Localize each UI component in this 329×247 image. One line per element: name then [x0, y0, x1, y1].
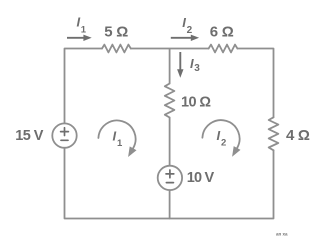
- mesh current loop i2 arrow: [202, 120, 239, 148]
- resistor R1 5-ohm: [102, 45, 131, 53]
- svg-text:2: 2: [187, 25, 193, 36]
- svg-text:1: 1: [81, 25, 87, 36]
- wire: left branch upper and top-left corner to 5-ohm resistor: [65, 49, 103, 124]
- svg-text:10 V: 10 V: [187, 170, 215, 186]
- current I3 branch arrow: [179, 52, 181, 70]
- voltage source V2 plus sign: [166, 170, 174, 178]
- wire: right branch lower and bottom-right segment to node B: [170, 150, 274, 218]
- svg-text:4 Ω: 4 Ω: [286, 127, 310, 144]
- current I1 branch arrow: [67, 37, 84, 39]
- svg-text:10 Ω: 10 Ω: [181, 94, 211, 110]
- wire: middle branch between 10-ohm and 10V source: [169, 118, 171, 166]
- svg-text:1: 1: [117, 138, 123, 149]
- voltage source V1 15V circle: [52, 123, 76, 147]
- voltage source V2 10V circle: [158, 166, 182, 190]
- svg-text:15 V: 15 V: [15, 128, 44, 144]
- resistor R4 4-ohm: [269, 117, 279, 150]
- svg-text:an xa: an xa: [276, 232, 288, 237]
- svg-text:I: I: [113, 129, 117, 144]
- wire: left branch lower and bottom-left segment to node B: [65, 148, 170, 219]
- wire: top middle segment across node A: [131, 48, 209, 50]
- svg-text:5 Ω: 5 Ω: [104, 24, 128, 41]
- voltage source V1 plus sign: [61, 128, 69, 136]
- svg-text:I: I: [217, 128, 221, 143]
- wire: middle branch lower (10V to bottom node B): [169, 190, 171, 218]
- svg-text:2: 2: [221, 138, 226, 149]
- svg-text:6 Ω: 6 Ω: [210, 24, 234, 41]
- resistor R3 10-ohm: [165, 84, 175, 118]
- wire: 6-ohm to top-right corner and right branch upper: [237, 49, 273, 118]
- current I2 branch arrow: [171, 37, 192, 39]
- mesh current loop i1 arrow: [98, 120, 135, 148]
- wire: middle branch upper (node A to 10-ohm): [169, 49, 171, 83]
- resistor R2 6-ohm: [209, 45, 238, 53]
- svg-text:I: I: [182, 15, 186, 30]
- voltage source V2 minus sign: [166, 182, 173, 184]
- svg-text:3: 3: [194, 63, 200, 74]
- voltage source V1 minus sign: [61, 139, 68, 141]
